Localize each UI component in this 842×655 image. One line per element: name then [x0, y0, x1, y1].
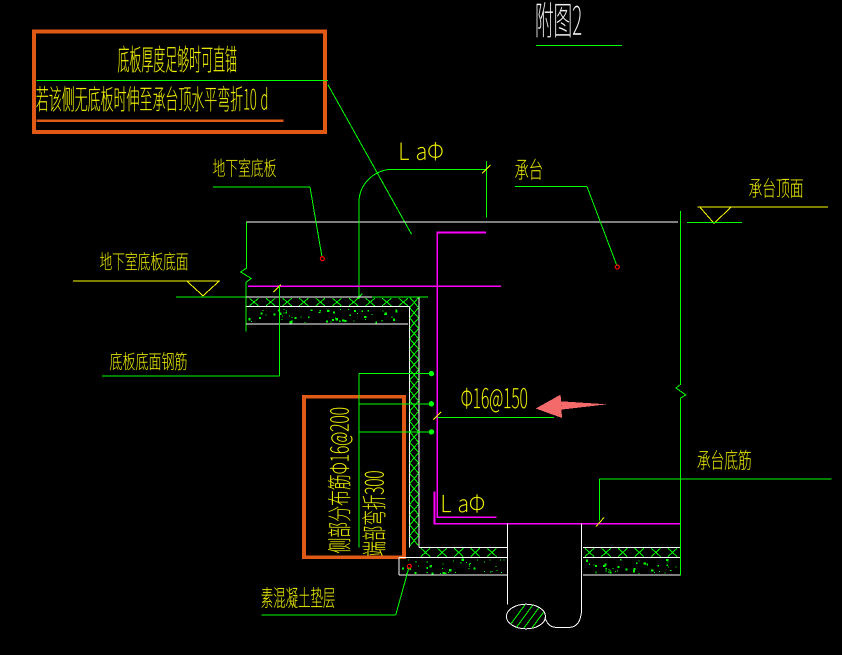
label Φ16@150 [462, 388, 527, 413]
box line2 orange underline [36, 120, 283, 122]
side bar 1 [359, 373, 431, 375]
side bars vertical connector [358, 374, 360, 548]
vtext 侧部分布筋Φ16@200 [328, 408, 352, 553]
pile right edge [581, 524, 583, 612]
underline 底板底面钢筋 [102, 375, 279, 377]
title underline [536, 45, 622, 47]
tick dim right [482, 165, 491, 173]
label 素混凝土垫层 [262, 587, 335, 608]
level line 承台顶面 [698, 206, 828, 208]
speckle fill slab bedding [348, 309, 349, 310]
box line2 text [36, 86, 267, 112]
tick 承台底筋 [596, 518, 604, 527]
dim arc [359, 169, 393, 202]
label 承台底筋 [698, 450, 751, 470]
slab bottom rebar [248, 285, 501, 287]
leader from box to rebar bend [328, 85, 412, 234]
leader 承台 [587, 187, 617, 266]
level green line 承台顶面 [687, 221, 742, 223]
dim extension line right [485, 161, 487, 217]
label 承台 [515, 159, 542, 180]
underline 素混凝土垫层 [261, 614, 395, 616]
label 底板底面钢筋 [110, 352, 187, 370]
label 地下室底板底面 [100, 252, 188, 271]
level triangle [187, 281, 219, 296]
annotation box side [304, 397, 404, 558]
dim line L aΦ [393, 168, 486, 170]
leader 地下室底板 [310, 187, 322, 257]
leader 素混凝土垫层 [396, 568, 409, 615]
cut line with break [676, 211, 686, 576]
box line1 text [118, 46, 236, 73]
bedding R bottom border [583, 574, 680, 576]
dim vertical drop [358, 202, 360, 299]
bedding L top border [419, 547, 508, 549]
tick on rebar [273, 285, 281, 293]
label L aΦ top [401, 142, 443, 160]
bedding L bottom border [399, 574, 508, 576]
leader dot 素混凝土垫层 [407, 564, 411, 568]
tick Φ16@150 [433, 412, 441, 420]
level triangle 承台顶面 [700, 207, 731, 223]
red arrow [536, 395, 607, 418]
level line green [176, 296, 428, 298]
box separator line [37, 80, 329, 82]
label 地下室底板 [213, 158, 276, 177]
speckle fill bedding L [462, 559, 464, 561]
underline 承台底筋 [600, 478, 832, 480]
band mid border white [246, 306, 410, 308]
underline 承台 [515, 186, 587, 188]
bedding R top border [583, 547, 680, 549]
label 承台顶面 [749, 178, 802, 198]
leader dot 地下室底板 [320, 257, 324, 261]
annotation box top-left [34, 32, 325, 133]
X hatch top band [249, 298, 258, 306]
leader vertical 承台底筋 [599, 479, 601, 520]
pile hatch [505, 602, 559, 632]
vtext 端部弯折300 [362, 471, 385, 555]
title text 附图2 [537, 2, 581, 37]
pile break wave [545, 612, 582, 628]
bedding L step left [398, 557, 400, 575]
underline 地下室底板 [213, 186, 310, 188]
X hatch bedding R [585, 548, 594, 556]
band bottom border white [246, 323, 408, 325]
side bar 2 [359, 403, 431, 405]
pile break ellipse [507, 604, 546, 629]
tick at drop end [355, 294, 362, 301]
X hatch bedding L [421, 548, 430, 556]
leader vertical 底板底面钢筋 [278, 286, 280, 376]
leader Φ16@150 [438, 416, 555, 418]
side bar 3 [359, 431, 431, 433]
vert band right border [418, 298, 420, 548]
pilecap bottom rebar bent up [435, 491, 681, 523]
zigzag hatch vertical band [410, 298, 419, 308]
band top border white [246, 296, 372, 298]
label L aΦ bottom [443, 494, 484, 512]
bedding R mid border [583, 556, 680, 558]
left slab edge with break [241, 222, 251, 332]
leader dot 承台 [615, 265, 619, 269]
bedding L mid border [399, 556, 508, 558]
speckle fill bedding R [634, 568, 636, 570]
pile left edge [507, 524, 509, 605]
level line yellow [73, 280, 220, 282]
slab top line white [246, 221, 678, 223]
wall vertical rebar with hooks [437, 233, 496, 518]
vert band left border [409, 307, 411, 548]
